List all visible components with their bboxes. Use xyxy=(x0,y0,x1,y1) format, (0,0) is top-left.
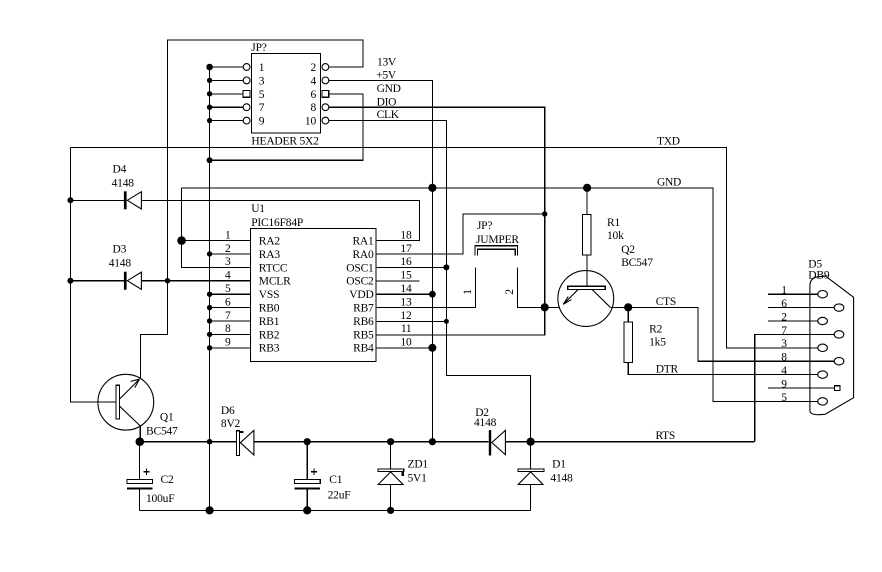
svg-text:4148: 4148 xyxy=(109,257,132,269)
svg-text:5: 5 xyxy=(259,89,265,101)
svg-text:RA0: RA0 xyxy=(352,249,374,261)
junction D1 top node on RTS line xyxy=(527,438,535,446)
wire bottom RTS line through D6 and D2 xyxy=(140,441,755,443)
DB9 pin 3 pad xyxy=(818,344,828,351)
svg-text:5: 5 xyxy=(781,392,787,404)
svg-text:7: 7 xyxy=(259,102,265,114)
svg-text:RB3: RB3 xyxy=(259,343,280,355)
DB9 pin 6 pad xyxy=(834,304,844,311)
svg-text:GND: GND xyxy=(657,177,681,189)
svg-text:RB0: RB0 xyxy=(259,303,280,315)
svg-text:JUMPER: JUMPER xyxy=(476,234,519,246)
svg-text:10k: 10k xyxy=(607,230,624,242)
header JP? HEADER 5X2 xyxy=(243,54,329,133)
svg-text:HEADER 5X2: HEADER 5X2 xyxy=(251,136,319,148)
junction D4 line on left rail xyxy=(67,197,73,203)
svg-text:RB4: RB4 xyxy=(353,343,374,355)
wire D4 line: left rail through D4 to RA1 pin 18 xyxy=(70,200,419,240)
net label 13V xyxy=(376,56,681,442)
DB9 pin 5 pad xyxy=(818,398,828,405)
svg-text:BC547: BC547 xyxy=(146,426,178,438)
wire RB4 pin10 to +5V vertical xyxy=(376,347,432,349)
svg-text:JP?: JP? xyxy=(251,42,266,54)
wire header left pin stubs 1,3,5,7,9 xyxy=(210,67,244,121)
transistor Q1 BC547 xyxy=(98,374,154,430)
transistor Q2 BC547 xyxy=(558,255,614,326)
DB9 pin 1 pad xyxy=(818,291,828,298)
svg-text:5V1: 5V1 xyxy=(408,473,428,485)
wire RTCC pin3 loop up to GND line corner xyxy=(182,188,251,268)
op IC U1 PIC16F84P box xyxy=(251,228,377,361)
svg-text:4: 4 xyxy=(310,75,316,87)
junction D3 line on left rail xyxy=(67,278,73,284)
wire left rail down to Q1 base xyxy=(70,147,116,402)
svg-text:D4: D4 xyxy=(113,163,127,175)
svg-text:+5V: +5V xyxy=(376,69,397,81)
svg-text:1k5: 1k5 xyxy=(649,337,666,349)
junction R1 top on GND line xyxy=(583,184,591,192)
zener ZD1 5V1 xyxy=(378,469,404,484)
svg-text:4: 4 xyxy=(781,365,787,377)
svg-text:OSC2: OSC2 xyxy=(346,276,374,288)
svg-text:3: 3 xyxy=(259,75,265,87)
wire jumper pin2 down to Q2 emitter xyxy=(518,268,560,308)
svg-text:8: 8 xyxy=(225,323,231,335)
svg-text:5: 5 xyxy=(225,283,231,295)
junction Q1 collector on RTS line xyxy=(136,437,145,446)
jumper JP? bracket xyxy=(475,246,518,256)
svg-text:ZD1: ZD1 xyxy=(408,459,429,471)
DB9 pin 7 pad xyxy=(834,331,844,338)
junction OSC1 on CLK vertical xyxy=(443,264,449,270)
junction header pin5 rail xyxy=(207,91,212,96)
junction rail B on bottom rail xyxy=(206,506,214,514)
connector D5 DB9 outline xyxy=(810,276,854,415)
wire R2 top and DTR line to DB9 pin 4 xyxy=(628,307,817,374)
svg-text:GND: GND xyxy=(377,83,401,95)
junction RA0 on DIO vertical xyxy=(542,211,547,216)
svg-text:7: 7 xyxy=(225,310,231,322)
svg-text:JP?: JP? xyxy=(477,220,492,232)
junction GND jog on rail B xyxy=(207,157,213,163)
wire CTS net: Q2 collector to DB9 pin 8 xyxy=(610,307,834,361)
svg-text:22uF: 22uF xyxy=(328,489,351,501)
DB9 pin 8 pad xyxy=(834,358,844,365)
svg-text:BC547: BC547 xyxy=(621,257,653,269)
junction RB2 pin8 on rail B xyxy=(207,332,212,337)
svg-text:DIO: DIO xyxy=(377,96,397,108)
diode D1 4148 xyxy=(518,469,544,484)
svg-text:RA2: RA2 xyxy=(259,236,281,248)
wire DIO net: header pin8 right, down, to RB5 pin 11 xyxy=(329,107,545,335)
svg-text:RB2: RB2 xyxy=(259,329,280,341)
svg-text:9: 9 xyxy=(225,337,231,349)
svg-text:4148: 4148 xyxy=(550,473,573,485)
wire DB9 stub pin 6 xyxy=(768,307,834,309)
DB9 pin 2 pad xyxy=(818,317,828,324)
wire RB7 pin13 to jumper pin1 xyxy=(376,268,476,308)
junction header pin1 rail xyxy=(206,64,213,71)
wire DB9 stub pin 9 xyxy=(768,387,835,389)
wire +5V net: header pin4 right then down to VDD/RB4/bottom rail xyxy=(329,80,432,441)
svg-text:4148: 4148 xyxy=(112,177,135,189)
junction RB0 pin6 on rail B xyxy=(207,305,212,310)
svg-text:4148: 4148 xyxy=(474,417,497,429)
junction C1 bottom on bottom rail xyxy=(303,506,311,514)
svg-text:3: 3 xyxy=(225,256,231,268)
svg-text:1: 1 xyxy=(225,229,231,241)
svg-text:1: 1 xyxy=(781,285,787,297)
svg-text:2: 2 xyxy=(781,311,787,323)
svg-text:13V: 13V xyxy=(377,56,397,68)
svg-text:C1: C1 xyxy=(329,474,342,486)
svg-text:18: 18 xyxy=(400,229,412,241)
svg-text:RB6: RB6 xyxy=(353,316,374,328)
junction RB3 pin9 on rail B xyxy=(207,345,212,350)
wire RB6 pin12 to CLK vertical xyxy=(376,320,446,322)
junction +5V on GND line xyxy=(428,184,436,192)
svg-text:11: 11 xyxy=(401,323,412,335)
svg-text:6: 6 xyxy=(781,298,787,310)
svg-text:RA1: RA1 xyxy=(352,236,374,248)
svg-text:15: 15 xyxy=(400,270,412,282)
svg-text:R1: R1 xyxy=(607,217,620,229)
wire VDD pin14 to +5V vertical xyxy=(376,293,432,295)
svg-text:PIC16F84P: PIC16F84P xyxy=(251,217,303,229)
svg-text:14: 14 xyxy=(400,283,412,295)
diode D2 4148 xyxy=(489,430,506,455)
svg-text:8: 8 xyxy=(310,102,316,114)
wire DB9 stub pin 2 xyxy=(768,320,818,322)
junction emitter wire on DIO vertical xyxy=(541,303,549,311)
svg-text:RTS: RTS xyxy=(656,430,676,442)
wire 13V net: header pin2 up over to left rail A down to Q1 emitter xyxy=(140,40,363,379)
svg-text:1: 1 xyxy=(259,62,265,74)
capacitor C2 100uF xyxy=(127,469,153,489)
svg-text:TXD: TXD xyxy=(657,136,680,148)
svg-text:RB5: RB5 xyxy=(353,329,374,341)
svg-text:R2: R2 xyxy=(649,323,662,335)
junction ZD1 top on RTS line xyxy=(387,438,394,445)
svg-text:D6: D6 xyxy=(221,405,235,417)
svg-text:RTCC: RTCC xyxy=(259,262,288,274)
junction header pin9 rail xyxy=(207,118,212,123)
wire OSC1 pin16 to CLK vertical xyxy=(376,266,446,268)
junction RA2 pin1 node xyxy=(177,236,186,245)
svg-text:10: 10 xyxy=(305,116,317,128)
wire TXD net: left rail top across to DB9 pin 3 xyxy=(70,147,817,348)
wire C2 leads xyxy=(138,442,140,511)
wire OSC2 pin15 stub xyxy=(376,280,419,282)
svg-text:17: 17 xyxy=(400,243,412,255)
junction MCLR line on rail A xyxy=(165,278,170,283)
svg-text:D1: D1 xyxy=(552,459,566,471)
wire bottom ground rail xyxy=(139,509,530,511)
svg-text:100uF: 100uF xyxy=(146,493,174,505)
svg-text:9: 9 xyxy=(259,116,265,128)
svg-text:13: 13 xyxy=(400,296,412,308)
svg-text:6: 6 xyxy=(225,296,231,308)
wire RTS net: DB9 pin 7 down to bottom line xyxy=(755,334,834,441)
svg-text:12: 12 xyxy=(400,310,412,322)
svg-text:OSC1: OSC1 xyxy=(346,262,374,274)
wire D1 leads xyxy=(530,442,532,511)
junction header pin7 rail xyxy=(207,105,212,110)
svg-text:RB1: RB1 xyxy=(259,316,280,328)
DB9 pin 9 pad xyxy=(834,386,840,391)
diode D4 4148 xyxy=(124,191,141,209)
wire C1 leads xyxy=(306,442,308,511)
svg-text:2: 2 xyxy=(504,289,516,295)
svg-text:D5: D5 xyxy=(808,258,822,270)
wire DB9 stub pin 1 xyxy=(768,293,818,295)
svg-text:VSS: VSS xyxy=(259,289,280,301)
junction +5V bottom on RTS line xyxy=(429,438,436,445)
wire GND header: pin6 right, down, left to ground rail B xyxy=(210,94,364,160)
svg-text:CLK: CLK xyxy=(377,109,400,121)
svg-text:D3: D3 xyxy=(113,244,127,256)
junction C1 top on RTS line xyxy=(304,438,311,445)
wire Q1 collector down to bottom line xyxy=(139,426,141,442)
junction RB6 on CLK vertical xyxy=(444,319,449,324)
svg-text:RB7: RB7 xyxy=(353,303,374,315)
diode D3 4148 xyxy=(124,272,141,290)
svg-text:CTS: CTS xyxy=(656,296,676,308)
junction RB1 pin7 on rail B xyxy=(207,318,212,323)
capacitor C1 22uF xyxy=(294,469,320,489)
wire R1 leads xyxy=(586,188,588,286)
svg-text:Q2: Q2 xyxy=(621,244,635,256)
svg-text:C2: C2 xyxy=(161,474,174,486)
svg-text:Q1: Q1 xyxy=(160,411,174,423)
svg-text:9: 9 xyxy=(781,378,787,390)
svg-text:RA3: RA3 xyxy=(259,249,281,261)
svg-text:2: 2 xyxy=(225,243,231,255)
DB9 pin 4 pad xyxy=(818,371,828,378)
wire GND long line to DB9 pin 5 xyxy=(182,188,818,402)
wire MCLR line through D3 xyxy=(70,280,250,282)
svg-text:4: 4 xyxy=(225,270,231,282)
svg-text:DTR: DTR xyxy=(656,363,679,375)
wire PIC left stubs pins 2,5,6,7,8,9 xyxy=(210,254,251,348)
wire ZD1 leads xyxy=(390,442,392,511)
junction header pin3 rail xyxy=(207,78,212,83)
svg-text:1: 1 xyxy=(462,289,474,295)
resistor R1 10k xyxy=(583,215,592,256)
svg-text:8V2: 8V2 xyxy=(221,418,241,430)
wire ground rail B vertical xyxy=(209,67,211,510)
svg-text:16: 16 xyxy=(400,256,412,268)
wire RA2 pin 1 xyxy=(182,240,251,242)
junction VDD on +5V vertical xyxy=(429,291,436,298)
zener D6 8V2 xyxy=(237,430,254,455)
svg-text:7: 7 xyxy=(781,325,787,337)
svg-text:2: 2 xyxy=(310,62,316,74)
svg-text:8: 8 xyxy=(781,352,787,364)
junction rail B on RTS line xyxy=(207,439,213,445)
svg-text:MCLR: MCLR xyxy=(259,276,291,288)
junction ZD1 bottom on bottom rail xyxy=(387,507,394,514)
svg-text:DB9: DB9 xyxy=(808,270,830,282)
wire CLK net: header pin10 right, down, jog right, down to RTS line xyxy=(329,121,530,442)
svg-text:10: 10 xyxy=(400,337,412,349)
junction VSS pin5 on rail B xyxy=(207,292,212,297)
svg-text:VDD: VDD xyxy=(349,289,373,301)
junction R2 top CTS node xyxy=(624,303,632,311)
wire RA0 pin17 loop to DIO vertical xyxy=(376,214,545,254)
svg-text:U1: U1 xyxy=(251,203,265,215)
svg-text:6: 6 xyxy=(310,89,316,101)
junction RA3 pin2 on rail B xyxy=(207,251,212,256)
resistor R2 1k5 xyxy=(624,322,633,363)
svg-text:3: 3 xyxy=(781,338,787,350)
junction RB4 on +5V vertical xyxy=(428,344,436,352)
